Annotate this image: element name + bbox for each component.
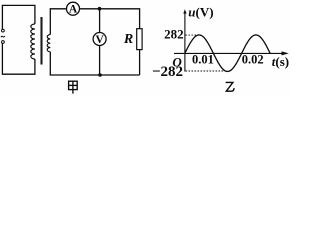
node junction top: [98, 7, 102, 11]
svg-text:R: R: [123, 32, 133, 47]
label yi (graph 2): [226, 82, 235, 91]
svg-text:0.01: 0.01: [192, 53, 214, 67]
svg-text:282: 282: [164, 26, 184, 41]
sine curve u(t): [185, 35, 270, 72]
terminal top: [2, 29, 5, 32]
dashed level -282: [186, 70, 228, 72]
primary winding L1: [31, 24, 35, 59]
wire top right: [80, 9, 140, 29]
node junction bottom: [98, 73, 102, 77]
svg-text:0.02: 0.02: [242, 53, 264, 67]
wire secondary bottom: [50, 52, 139, 75]
svg-text:A: A: [69, 4, 78, 16]
svg-text:O: O: [172, 54, 182, 69]
svg-text:t(s): t(s): [272, 54, 289, 69]
secondary winding L2: [47, 35, 50, 52]
svg-text:V: V: [95, 34, 104, 46]
wire secondary top: [50, 9, 66, 35]
y-axis u: [183, 9, 186, 71]
svg-text:u(V): u(V): [188, 4, 213, 19]
ac source tilde: [1, 36, 5, 37]
terminal bottom: [2, 41, 5, 44]
x-axis t: [174, 51, 289, 55]
label jia (circuit 1): [69, 81, 78, 93]
wire primary loop top/left/bottom: [2, 5, 35, 74]
resistor R: [123, 29, 142, 50]
wire right lower: [139, 50, 141, 75]
transformer core: [40, 17, 42, 65]
wire voltmeter branch lower: [99, 46, 101, 76]
wire voltmeter branch upper: [99, 9, 101, 33]
ammeter A: [67, 2, 80, 16]
dashed level +282: [186, 34, 200, 36]
voltmeter V: [93, 33, 106, 47]
